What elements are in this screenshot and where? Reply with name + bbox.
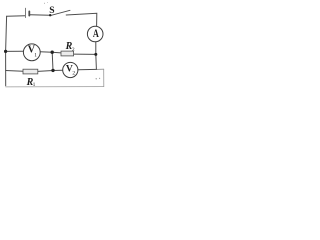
svg-text:S: S bbox=[49, 5, 54, 16]
svg-text:A: A bbox=[93, 28, 100, 41]
svg-text:1: 1 bbox=[33, 82, 36, 88]
svg-text:2: 2 bbox=[72, 70, 75, 76]
svg-text:1: 1 bbox=[34, 52, 37, 58]
svg-text:2: 2 bbox=[72, 47, 75, 53]
